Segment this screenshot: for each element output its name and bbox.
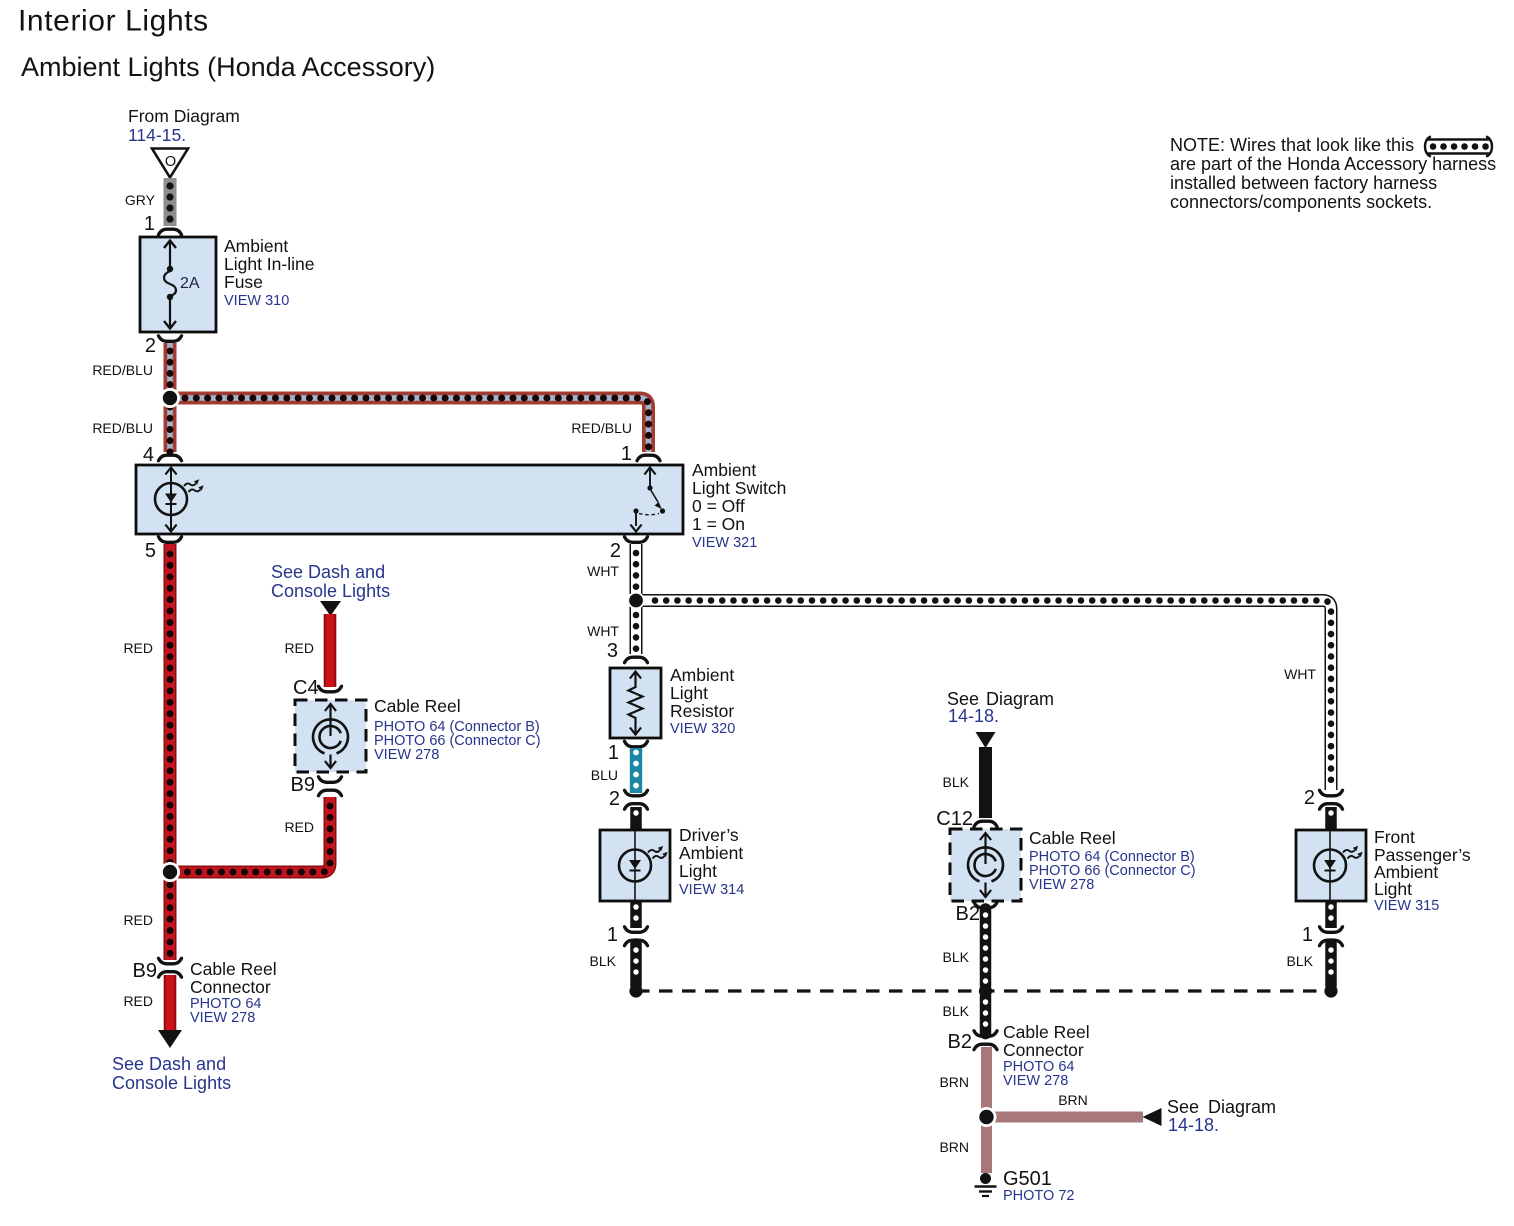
svg-text:From Diagram: From Diagram (128, 106, 240, 126)
svg-text:installed between factory harn: installed between factory harness (1170, 173, 1437, 193)
wire GRY (accessory, dotted) from triangle to fuse pin 1 (164, 178, 177, 226)
junction of RED/BLU wires (160, 388, 180, 408)
wire BLK short from connector to driver's light (630, 807, 642, 830)
ground G501, PHOTO 72 (980, 1173, 991, 1184)
svg-text:Connector: Connector (1003, 1040, 1084, 1060)
source triangle with O (152, 149, 188, 178)
wire WHT horizontal run to front passenger light (636, 601, 1331, 791)
svg-text:See Dash and: See Dash and (271, 562, 385, 582)
wire RED/BLU horizontal branch to switch pin 1 (170, 398, 649, 452)
svg-text:VIEW 278: VIEW 278 (374, 747, 439, 763)
svg-text:WHT: WHT (1284, 666, 1316, 682)
wire WHT from junction down to resistor pin 3 (630, 601, 643, 655)
svg-text:114-15.: 114-15. (128, 125, 186, 145)
svg-text:VIEW 310: VIEW 310 (224, 293, 289, 309)
svg-text:BLK: BLK (943, 949, 970, 965)
svg-text:VIEW 278: VIEW 278 (190, 1010, 255, 1026)
resistor R1: Ambient Light Resistor, VIEW 320 (610, 668, 661, 738)
svg-text:Interior Lights: Interior Lights (18, 5, 209, 38)
svg-text:Ambient: Ambient (224, 236, 288, 256)
svg-text:VIEW 314: VIEW 314 (679, 882, 744, 898)
wire RED solid (factory) from arrow to connector C4 (324, 614, 337, 687)
junction of RED wires (160, 862, 180, 882)
svg-text:VIEW 278: VIEW 278 (1003, 1073, 1068, 1089)
svg-text:BRN: BRN (939, 1139, 969, 1155)
svg-text:1 = On: 1 = On (692, 514, 745, 534)
svg-text:WHT: WHT (587, 623, 619, 639)
svg-text:1: 1 (607, 924, 618, 946)
wire RED/BLU vertical from fuse pin 2 to switch pin 4 (164, 343, 177, 452)
switch contact symbol (644, 468, 655, 475)
wire RED dotted branch from cable reel B9 down/left to junction (170, 797, 330, 872)
wire BLK from driver's light pin 1 (630, 901, 642, 928)
svg-text:BRN: BRN (939, 1074, 969, 1090)
wire BLK (accessory, dotted) from junction down to connector B2 (980, 996, 992, 1034)
svg-text:Cable Reel: Cable Reel (374, 696, 461, 716)
wire BLK from pin 1 to ground junction (630, 944, 642, 986)
svg-text:RED: RED (123, 912, 153, 928)
svg-text:GRY: GRY (125, 192, 156, 208)
svg-text:B9: B9 (291, 774, 315, 796)
svg-text:Cable Reel: Cable Reel (190, 959, 277, 979)
svg-text:14-18.: 14-18. (948, 706, 999, 726)
svg-text:WHT: WHT (587, 563, 619, 579)
junction of WHT wires (627, 592, 644, 609)
svg-text:connectors/components sockets.: connectors/components sockets. (1170, 192, 1432, 212)
svg-text:Connector: Connector (190, 977, 271, 997)
svg-text:2: 2 (145, 335, 156, 357)
svg-text:Ambient: Ambient (692, 460, 756, 480)
switch SW1: Ambient Light Switch, VIEW 321 (136, 465, 683, 534)
svg-text:B2: B2 (948, 1031, 972, 1053)
svg-text:Light: Light (679, 861, 717, 881)
lamp: Driver's Ambient Light, VIEW 314 (600, 830, 670, 901)
cable reel (center), PHOTO 64 / PHOTO 66 / VIEW 278 (950, 829, 1021, 901)
svg-text:2: 2 (610, 540, 621, 562)
svg-text:Ambient: Ambient (679, 843, 743, 863)
svg-text:C4: C4 (293, 677, 319, 699)
svg-text:RED: RED (123, 993, 153, 1009)
svg-text:1: 1 (621, 443, 632, 465)
svg-text:Cable Reel: Cable Reel (1029, 828, 1116, 848)
wire BRN horizontal branch to see-diagram reference (987, 1112, 1144, 1123)
left arrowhead to see-diagram 14-18 (1143, 1108, 1162, 1126)
svg-text:14-18.: 14-18. (1168, 1115, 1219, 1135)
wire BLK from pin 1 to ground junction (1325, 944, 1337, 986)
svg-text:Fuse: Fuse (224, 272, 263, 292)
svg-text:VIEW 321: VIEW 321 (692, 535, 757, 551)
svg-text:are part of the Honda Accessor: are part of the Honda Accessory harness (1170, 154, 1496, 174)
wire RED (accessory, dotted) from switch pin 5 down to connector B9 (164, 544, 177, 960)
svg-text:Diagram: Diagram (1208, 1097, 1276, 1117)
dashed ground bus wire (636, 989, 1331, 992)
svg-text:BLK: BLK (590, 953, 617, 969)
svg-text:2: 2 (1304, 787, 1315, 809)
svg-text:1: 1 (1302, 924, 1313, 946)
svg-text:BLK: BLK (943, 1003, 970, 1019)
svg-text:RED/BLU: RED/BLU (571, 420, 632, 436)
down arrow from see-diagram reference (976, 732, 996, 748)
svg-text:Cable Reel: Cable Reel (1003, 1022, 1090, 1042)
down arrowhead to see-dash reference (158, 1030, 182, 1048)
junction driver ground (629, 984, 642, 997)
svg-text:Ambient Lights (Honda Accessor: Ambient Lights (Honda Accessory) (21, 52, 435, 82)
svg-text:See Dash and: See Dash and (112, 1054, 226, 1074)
svg-text:G501: G501 (1003, 1168, 1052, 1190)
svg-text:C12: C12 (936, 808, 973, 830)
wire BLK short from connector to passenger light (1325, 807, 1337, 830)
svg-text:BLU: BLU (591, 767, 618, 783)
svg-text:See: See (1167, 1097, 1199, 1117)
junction center ground (979, 984, 992, 997)
svg-text:RED/BLU: RED/BLU (92, 420, 153, 436)
svg-text:BRN: BRN (1058, 1092, 1088, 1108)
junction passenger ground (1324, 984, 1337, 997)
svg-text:Ambient: Ambient (670, 665, 734, 685)
fuse F1: Ambient Light In-line Fuse 2A, VIEW 310 (140, 237, 216, 332)
wire BLK from passenger light pin 1 (1325, 901, 1337, 928)
svg-text:Driver’s: Driver’s (679, 825, 739, 845)
svg-text:VIEW 320: VIEW 320 (670, 721, 735, 737)
wire BLU (accessory, dotted) from resistor pin 1 to driver's light pin 2 (630, 748, 642, 793)
svg-text:Resistor: Resistor (670, 701, 734, 721)
svg-text:VIEW 278: VIEW 278 (1029, 877, 1094, 893)
svg-text:Light: Light (670, 683, 708, 703)
junction of BRN wires (977, 1107, 997, 1127)
svg-text:BLK: BLK (943, 774, 970, 790)
wire RED solid (factory) from B9 to dash/console lights (164, 975, 177, 1032)
svg-text:O: O (165, 154, 176, 170)
down arrow from dash/console reference (320, 601, 341, 616)
svg-text:0 = Off: 0 = Off (692, 496, 745, 516)
svg-text:Light In-line: Light In-line (224, 254, 314, 274)
svg-text:1: 1 (144, 213, 155, 235)
svg-text:BLK: BLK (1287, 953, 1314, 969)
svg-text:Light Switch: Light Switch (692, 478, 786, 498)
svg-text:5: 5 (145, 540, 156, 562)
svg-text:RED: RED (123, 640, 153, 656)
svg-text:1: 1 (608, 742, 619, 764)
wire BLK solid (factory) from arrow to connector C12 (979, 747, 992, 818)
svg-text:Console Lights: Console Lights (271, 581, 390, 601)
cable reel (middle), PHOTO 64 / PHOTO 66 / VIEW 278 (295, 700, 366, 772)
wire WHT (accessory, dotted) from switch pin 2 to junction (630, 544, 643, 594)
svg-text:VIEW 315: VIEW 315 (1374, 898, 1439, 914)
svg-text:Console Lights: Console Lights (112, 1073, 231, 1093)
svg-text:RED/BLU: RED/BLU (92, 362, 153, 378)
svg-text:2: 2 (609, 788, 620, 810)
svg-text:3: 3 (607, 640, 618, 662)
svg-text:RED: RED (284, 819, 314, 835)
svg-text:RED: RED (284, 640, 314, 656)
svg-text:4: 4 (143, 444, 154, 466)
svg-text:PHOTO 72: PHOTO 72 (1003, 1188, 1074, 1204)
svg-text:Front: Front (1374, 827, 1415, 847)
wire BRN from B2 to ground G501 (981, 1047, 992, 1173)
note dotted-wire sample symbol (1427, 140, 1490, 154)
svg-text:B9: B9 (133, 960, 157, 982)
wire BLK (accessory, dotted) from B2 down to ground junction (980, 909, 992, 986)
svg-text:2A: 2A (180, 275, 200, 292)
svg-text:NOTE: Wires that look like thi: NOTE: Wires that look like this (1170, 135, 1414, 155)
lamp: Front Passenger's Ambient Light, VIEW 315 (1296, 830, 1366, 901)
svg-text:Light: Light (1374, 879, 1412, 899)
switch LED indicator symbol (165, 468, 176, 475)
